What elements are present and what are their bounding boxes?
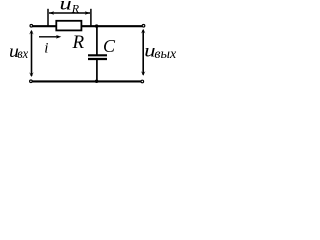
svg-text:C: C [103,36,116,56]
svg-text:вх: вх [17,47,29,62]
svg-text:i: i [44,40,48,56]
svg-text:R: R [72,32,85,53]
svg-text:вых: вых [154,47,177,62]
svg-text:R: R [71,1,80,15]
svg-text:u: u [60,0,72,14]
